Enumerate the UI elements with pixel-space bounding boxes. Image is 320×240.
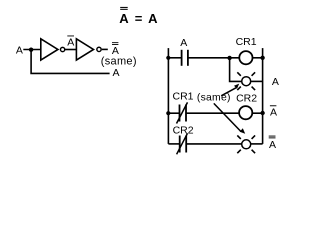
svg-text:(same): (same): [101, 56, 137, 68]
arrow to lamp A-double-bar: [214, 103, 245, 133]
svg-text:=: =: [135, 11, 143, 26]
ladder right rail: [262, 48, 264, 144]
junction input node A: [29, 48, 33, 52]
wire branch to lamp A: [230, 58, 242, 82]
junction rung1 branch: [227, 56, 231, 60]
wire rung3 middle: [186, 143, 242, 145]
svg-text:A: A: [180, 37, 187, 49]
lamp A (pilot light): [237, 72, 255, 90]
contact CR2 normally-closed: [177, 133, 188, 154]
svg-text:A: A: [272, 76, 279, 88]
junction rung1 left rail: [166, 56, 170, 60]
wire rung1 middle: [188, 57, 240, 59]
wire U1 output to U2 input: [65, 49, 77, 51]
svg-text:A: A: [16, 45, 23, 57]
svg-text:A: A: [269, 139, 276, 151]
junction rung2 left rail: [166, 111, 170, 115]
svg-text:A: A: [112, 67, 119, 79]
node A-double-bar label: [112, 42, 119, 57]
inverter U2 output bubble: [97, 47, 101, 51]
wire rung3 left: [168, 143, 179, 145]
wire U2 output: [102, 48, 108, 50]
relay coil CR2: [239, 106, 252, 119]
inverter U1 triangle: [41, 39, 58, 60]
svg-text:A: A: [148, 11, 158, 26]
wire lamp to right rail rung3: [251, 143, 263, 145]
contact CR1 normally-closed: [177, 102, 188, 123]
svg-text:CR1: CR1: [236, 36, 257, 48]
title equation A-double-bar = A: [119, 7, 158, 26]
wire rung2 middle: [186, 112, 239, 114]
svg-text:CR1: CR1: [172, 91, 193, 103]
wire rung2 left: [168, 112, 179, 114]
lamp A-double-bar (pilot light): [237, 135, 255, 153]
junction rung2 right rail: [260, 111, 264, 115]
wire input A to inverter U1: [23, 49, 41, 51]
svg-text:CR2: CR2: [236, 92, 257, 104]
wire rung1 left: [168, 57, 181, 59]
svg-text:CR2: CR2: [173, 125, 194, 137]
svg-text:A: A: [119, 11, 129, 26]
inverter U2 triangle: [76, 39, 93, 60]
node A-bar label: [67, 36, 74, 49]
node A-bar output label: [270, 105, 277, 118]
ladder left rail: [167, 48, 169, 144]
wire rung2 right: [252, 112, 262, 114]
wire feedback from node A: [31, 50, 110, 74]
svg-text:A: A: [67, 36, 74, 48]
wire rung1 right: [252, 57, 262, 59]
inverter U1 output bubble: [60, 47, 64, 51]
relay coil CR1: [239, 51, 252, 64]
svg-text:A: A: [270, 106, 277, 118]
contact A normally-open: [182, 50, 188, 66]
svg-text:(same): (same): [197, 93, 231, 104]
arrow to lamp A: [221, 84, 239, 96]
node A-double-bar output label: [269, 136, 276, 151]
wire lamp A to right rail: [251, 80, 263, 82]
junction rung1 right rail: [260, 56, 264, 60]
